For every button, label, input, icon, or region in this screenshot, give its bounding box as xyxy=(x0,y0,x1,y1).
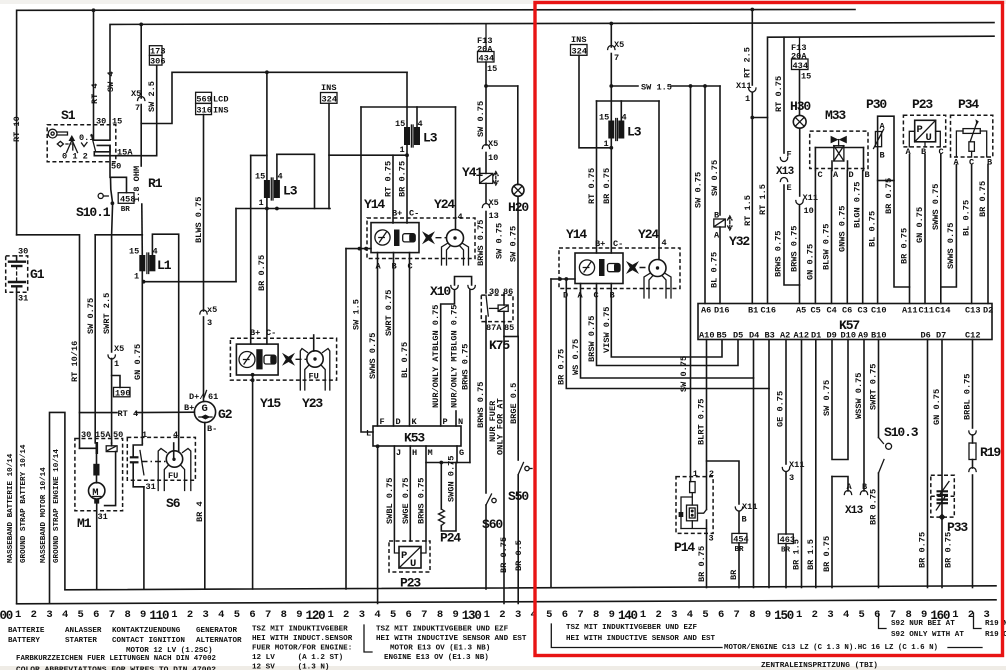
wire RT4 bus to G2 xyxy=(80,412,118,414)
svg-text:Y15: Y15 xyxy=(260,396,281,411)
starter M1 xyxy=(75,430,123,589)
svg-text:S1: S1 xyxy=(61,108,76,123)
wire P23 A to K57 A11 xyxy=(909,155,911,304)
wire K57 D6 to bus (BR 0.75) xyxy=(927,340,929,588)
svg-text:7: 7 xyxy=(135,103,140,113)
svg-text:C6: C6 xyxy=(842,306,852,316)
svg-text:8: 8 xyxy=(124,609,130,621)
svg-text:9: 9 xyxy=(609,609,615,621)
svg-text:M: M xyxy=(428,448,433,458)
connector X10 jumper xyxy=(430,277,475,300)
resistor P24 with loop xyxy=(439,456,462,546)
svg-text:7: 7 xyxy=(421,609,427,621)
svg-text:SW 0.75: SW 0.75 xyxy=(679,356,689,392)
svg-text:BR 0.5: BR 0.5 xyxy=(514,540,524,571)
svg-text:MASSEBAND BATTERIE 10/14: MASSEBAND BATTERIE 10/14 xyxy=(7,453,15,563)
wire SW 1.5 bus xyxy=(611,85,638,87)
svg-text:P23: P23 xyxy=(912,97,933,112)
svg-text:RT 0.75: RT 0.75 xyxy=(587,168,597,204)
svg-text:HEI WITH INDUCT.SENSOR: HEI WITH INDUCT.SENSOR xyxy=(252,635,353,643)
svg-text:K75: K75 xyxy=(489,338,510,353)
svg-text:A5: A5 xyxy=(796,306,806,316)
switch S60 xyxy=(482,494,503,532)
svg-text:X10: X10 xyxy=(430,284,451,299)
switch S10.3 xyxy=(879,425,919,473)
svg-text:BL 0.75: BL 0.75 xyxy=(710,252,720,288)
svg-text:3: 3 xyxy=(671,609,677,621)
wire K75-85 to ground with branch to S50 line xyxy=(503,322,505,604)
svg-text:SWWS 0.75: SWWS 0.75 xyxy=(946,223,956,269)
svg-text:SWRT 2.5: SWRT 2.5 xyxy=(102,293,112,334)
svg-text:A6: A6 xyxy=(701,306,711,316)
wire BR 0.75 to Y14R C- xyxy=(610,148,612,253)
svg-text:C10: C10 xyxy=(871,306,886,316)
wire bus2 top (15 supply) xyxy=(110,23,994,139)
wire K57 A9 to X13-B (WSSW 0.75) xyxy=(863,340,865,492)
wire 15A bar xyxy=(94,155,156,157)
svg-text:2: 2 xyxy=(655,609,661,621)
svg-text:BRWS 0.75: BRWS 0.75 xyxy=(476,220,486,266)
svg-text:87A: 87A xyxy=(486,323,502,333)
generator G2 xyxy=(184,391,233,590)
svg-text:ZENTRALEINSPRITZUNG (TBI): ZENTRALEINSPRITZUNG (TBI) xyxy=(761,662,878,670)
wire Y14R entry bar xyxy=(551,278,575,280)
svg-text:A9: A9 xyxy=(858,331,868,341)
svg-text:1: 1 xyxy=(400,145,405,155)
svg-text:BR 1.5: BR 1.5 xyxy=(806,539,816,570)
svg-text:9: 9 xyxy=(140,609,146,621)
svg-text:WSSW 0.75: WSSW 0.75 xyxy=(854,373,864,419)
svg-text:110: 110 xyxy=(149,609,169,623)
svg-text:TSZ MIT INDUKTIVGEBER: TSZ MIT INDUKTIVGEBER xyxy=(252,626,348,634)
svg-text:SWGE 0.75: SWGE 0.75 xyxy=(401,478,411,524)
svg-text:RT 0.75: RT 0.75 xyxy=(774,76,784,112)
wire K53 M to P23 (BRWS 0.75) + M-G bar xyxy=(425,446,427,541)
svg-text:100: 100 xyxy=(0,609,13,623)
svg-text:120: 120 xyxy=(306,609,326,623)
svg-text:BLRT 0.75: BLRT 0.75 xyxy=(697,399,707,445)
svg-text:NUR/ONLY AT: NUR/ONLY AT xyxy=(431,351,441,408)
wire RT 0.75 to Y14R B+ xyxy=(596,148,598,253)
svg-text:2: 2 xyxy=(709,469,714,479)
wire K57 D4 / B3 ground lines to bus1 xyxy=(753,378,755,588)
svg-text:BR 1.5: BR 1.5 xyxy=(792,539,802,570)
svg-text:KONTAKTZUENDUNG: KONTAKTZUENDUNG xyxy=(112,627,181,635)
svg-text:1: 1 xyxy=(142,430,147,440)
svg-text:B: B xyxy=(865,170,870,180)
wire Y15 ground line down to bus1 xyxy=(252,375,254,589)
wire RT 2.5 from bus1 down xyxy=(750,8,754,12)
svg-text:INS: INS xyxy=(571,35,586,45)
connector X5 pin 7 xyxy=(138,97,145,101)
svg-text:RT 1.5: RT 1.5 xyxy=(758,184,768,215)
svg-text:P: P xyxy=(917,124,923,136)
fuse box 173/306 xyxy=(149,46,165,67)
svg-text:BR 4: BR 4 xyxy=(195,501,205,522)
svg-text:K: K xyxy=(412,417,418,427)
svg-text:D7: D7 xyxy=(936,331,946,341)
svg-text:3: 3 xyxy=(46,609,52,621)
svg-text:190: 190 xyxy=(115,388,130,398)
inductor L3 (instrument, left mid) xyxy=(251,72,315,344)
svg-text:1: 1 xyxy=(327,609,333,621)
svg-text:BR 0.75: BR 0.75 xyxy=(822,536,832,572)
sensor P23 (left) xyxy=(389,541,430,591)
svg-text:D: D xyxy=(396,417,401,427)
svg-text:L: L xyxy=(366,429,371,439)
svg-text:SWBL 0.75: SWBL 0.75 xyxy=(385,478,395,524)
wire X10 left to K53 P (BLGN 0.75) xyxy=(441,290,455,426)
svg-text:15: 15 xyxy=(112,117,122,127)
svg-text:2: 2 xyxy=(187,609,193,621)
svg-text:5: 5 xyxy=(78,609,84,621)
node RT10 label xyxy=(12,116,22,142)
svg-text:A: A xyxy=(906,147,912,157)
svg-text:3: 3 xyxy=(207,318,212,328)
svg-text:U: U xyxy=(410,558,416,570)
wire Y14R C to K57 D5 (BRSW 0.75) xyxy=(597,284,739,366)
svg-text:C13: C13 xyxy=(965,306,980,316)
svg-text:X13: X13 xyxy=(845,505,864,517)
svg-text:RT 4: RT 4 xyxy=(118,409,139,419)
svg-text:G: G xyxy=(202,403,208,415)
svg-text:S10.1: S10.1 xyxy=(76,205,111,220)
wire K57 A12 to bus (BR 1.5) xyxy=(801,340,803,588)
svg-text:4: 4 xyxy=(458,212,463,222)
wire BR 0.75 to Y15 C- xyxy=(266,209,268,345)
svg-text:BR 0.75: BR 0.75 xyxy=(257,255,267,291)
sensor P33 xyxy=(931,475,969,535)
svg-text:GN 0.75: GN 0.75 xyxy=(806,244,816,280)
svg-text:15: 15 xyxy=(599,113,609,123)
wire K57 B10 to S10.3 (SWRT 0.75) xyxy=(878,340,880,438)
inductor L3 (main, left) xyxy=(361,72,456,157)
svg-text:BR 0.75: BR 0.75 xyxy=(918,532,928,568)
svg-text:BLGN 0.75: BLGN 0.75 xyxy=(431,305,441,351)
wire R1 line down to L1 xyxy=(140,124,142,167)
svg-text:9: 9 xyxy=(765,609,771,621)
control unit K57 xyxy=(698,304,993,341)
wire entry ground to bus1 xyxy=(550,279,552,588)
box 454 BR xyxy=(738,512,740,533)
box 569/316 LCD INS xyxy=(196,92,229,115)
svg-text:ONLY FOR AT: ONLY FOR AT xyxy=(496,398,506,455)
svg-text:G: G xyxy=(459,448,464,458)
svg-text:ENGINE E13 OV (E1.3 NB): ENGINE E13 OV (E1.3 NB) xyxy=(384,654,489,662)
svg-text:9: 9 xyxy=(452,609,458,621)
svg-text:3: 3 xyxy=(709,534,714,544)
lamp H30 xyxy=(790,99,811,196)
svg-text:1: 1 xyxy=(640,609,646,621)
svg-text:2: 2 xyxy=(812,609,818,621)
svg-text:5: 5 xyxy=(390,609,396,621)
svg-text:GNWS 0.75: GNWS 0.75 xyxy=(837,206,847,252)
svg-text:SWGN 0.75: SWGN 0.75 xyxy=(447,456,457,502)
svg-text:13: 13 xyxy=(489,211,499,221)
svg-text:RT 1.5: RT 1.5 xyxy=(743,195,753,226)
svg-text:D16: D16 xyxy=(714,306,729,316)
svg-text:X11: X11 xyxy=(742,502,757,512)
svg-text:B+: B+ xyxy=(184,403,194,413)
svg-text:BLSW 0.75: BLSW 0.75 xyxy=(822,224,832,270)
svg-text:D: D xyxy=(849,170,854,180)
wire Y14L entry bar with junctions xyxy=(346,248,371,250)
svg-text:RT 10: RT 10 xyxy=(12,116,22,142)
svg-text:B1: B1 xyxy=(748,306,758,316)
wire footer bracket 2 xyxy=(364,625,372,652)
wire X5-7 right line from bus2 xyxy=(609,22,613,26)
wire M33 D to K57 C6 (GNWS 0.75) xyxy=(846,171,848,304)
svg-text:6: 6 xyxy=(718,609,724,621)
svg-text:MOTOR 12 LV (1.2SC): MOTOR 12 LV (1.2SC) xyxy=(126,647,213,655)
svg-text:X13: X13 xyxy=(776,166,795,178)
svg-text:COLOR ABBREVIATIONS FOR WIRES: COLOR ABBREVIATIONS FOR WIRES TO DIN 470… xyxy=(16,667,216,670)
wire SW1.5 riser from L3L box to Y14 and K53 L xyxy=(361,107,373,432)
svg-text:BATTERIE: BATTERIE xyxy=(8,627,45,635)
switch S10.1 xyxy=(76,193,111,220)
svg-text:4: 4 xyxy=(62,609,68,621)
svg-text:Y23: Y23 xyxy=(302,396,323,411)
svg-text:M1: M1 xyxy=(77,516,92,531)
svg-text:D+/: D+/ xyxy=(189,392,204,402)
svg-text:50: 50 xyxy=(111,162,121,172)
svg-text:J: J xyxy=(396,448,401,458)
svg-text:B+: B+ xyxy=(250,328,260,338)
wire RT 0.75 from bus3 to X13-F xyxy=(783,37,785,153)
fuse F13 (left) xyxy=(477,24,497,86)
wire P34 C to K57 C13 (BL 0.75) xyxy=(971,165,973,304)
svg-text:FU: FU xyxy=(309,372,319,382)
svg-text:BR 0.75: BR 0.75 xyxy=(944,532,954,568)
svg-text:S6: S6 xyxy=(166,496,181,511)
node red highlight frame xyxy=(535,3,1003,656)
capacitor switch S6 xyxy=(127,430,195,589)
wire Y14L C to K53 K (BL 0.75) xyxy=(409,253,411,426)
svg-text:10: 10 xyxy=(804,206,814,216)
wire M33 A to K57 C4 (BLSW 0.75) xyxy=(831,171,833,304)
lamp H20 xyxy=(508,86,529,337)
wire BR 0.75 to Y14L C- xyxy=(406,155,408,223)
svg-text:D2: D2 xyxy=(983,306,993,316)
svg-text:CONTACT IGNITION: CONTACT IGNITION xyxy=(112,637,185,645)
wire RT 0.75 to Y14L B+ xyxy=(392,155,394,223)
svg-text:85: 85 xyxy=(504,323,514,333)
svg-text:x5: x5 xyxy=(207,305,217,315)
svg-text:BRWS 0.75: BRWS 0.75 xyxy=(476,382,486,428)
svg-text:A: A xyxy=(714,231,720,241)
svg-text:61: 61 xyxy=(208,392,218,402)
wire 50 / SWRT 2.5 down from S1 xyxy=(109,145,111,177)
switch S1 ignition xyxy=(47,108,133,172)
wire H20/S50 line down xyxy=(517,337,519,461)
svg-text:S92 ONLY WITH AT: S92 ONLY WITH AT xyxy=(891,631,964,639)
svg-text:D5: D5 xyxy=(733,331,743,341)
svg-text:B: B xyxy=(880,151,885,161)
svg-text:BRWS 0.75: BRWS 0.75 xyxy=(774,231,784,277)
wire Y24L terminal 4 riser xyxy=(455,107,457,230)
svg-text:BLGN 0.75: BLGN 0.75 xyxy=(853,182,863,228)
svg-text:SW 0.75: SW 0.75 xyxy=(710,160,720,196)
relay K75 xyxy=(481,287,514,353)
svg-text:BR 0.75: BR 0.75 xyxy=(398,161,408,197)
wire Y14L A to K53 F (SWWS 0.75) xyxy=(377,253,379,426)
svg-text:LCD: LCD xyxy=(213,95,228,105)
wire SW 2.5 from 173/306 to 15A bar xyxy=(156,65,158,155)
svg-text:C: C xyxy=(818,170,823,180)
svg-text:SW 0.75: SW 0.75 xyxy=(822,380,832,416)
wire X5-7 line from bus2 down xyxy=(139,23,143,27)
wire INS bar y155 xyxy=(329,154,407,156)
wire S92 bracket xyxy=(879,613,887,629)
fuse F13 (right) xyxy=(791,37,811,115)
svg-text:U: U xyxy=(926,132,932,144)
svg-text:INS: INS xyxy=(213,106,228,116)
svg-text:6: 6 xyxy=(874,609,880,621)
svg-text:12 LV (A 1.2 ST): 12 LV (A 1.2 ST) xyxy=(252,654,343,662)
wire RT 1.5 to K57 C16 xyxy=(767,118,769,304)
svg-text:8: 8 xyxy=(749,609,755,621)
svg-text:10: 10 xyxy=(488,153,498,163)
svg-text:3: 3 xyxy=(359,609,365,621)
control unit K53 xyxy=(366,417,464,458)
injection unit P14 xyxy=(674,469,714,588)
injector module Y14 (left) xyxy=(364,197,475,272)
wire SW 0.75 from SW1.5 to P14 pin1 xyxy=(690,86,692,482)
svg-text:G1: G1 xyxy=(30,267,45,282)
relay coil Y41 xyxy=(462,165,498,203)
svg-text:BRWS 0.75: BRWS 0.75 xyxy=(417,478,427,524)
wire Y14R B to K57 B5 (VISW 0.75) xyxy=(611,284,722,358)
svg-text:A: A xyxy=(833,170,839,180)
svg-text:M33: M33 xyxy=(825,108,846,123)
svg-text:E: E xyxy=(787,183,792,193)
node grid scale numbers xyxy=(0,609,990,623)
svg-text:3: 3 xyxy=(827,609,833,621)
svg-text:B+: B+ xyxy=(392,209,402,219)
svg-text:VISW 0.75: VISW 0.75 xyxy=(602,307,612,353)
svg-text:BR 0.75: BR 0.75 xyxy=(978,181,988,217)
switch S50 xyxy=(508,463,532,505)
svg-text:RT 0.75: RT 0.75 xyxy=(384,161,394,197)
svg-text:WS 0.75: WS 0.75 xyxy=(571,339,581,375)
svg-text:1: 1 xyxy=(745,94,750,104)
svg-text:C16: C16 xyxy=(761,306,776,316)
svg-text:1: 1 xyxy=(114,359,119,369)
wire P23 B to K57 C11 (GN 0.75) xyxy=(924,155,926,304)
svg-text:BR 0.75: BR 0.75 xyxy=(869,489,879,525)
svg-text:306: 306 xyxy=(150,56,165,66)
svg-text:Y24: Y24 xyxy=(434,197,455,212)
svg-text:6: 6 xyxy=(249,609,255,621)
svg-text:1: 1 xyxy=(693,469,698,479)
svg-text:C5: C5 xyxy=(811,306,821,316)
box 463 BR xyxy=(778,534,793,544)
svg-text:FU: FU xyxy=(168,471,178,481)
svg-text:STARTER: STARTER xyxy=(65,637,97,645)
wire fuse line down through Y41 xyxy=(485,86,487,145)
svg-text:31: 31 xyxy=(146,482,156,492)
svg-text:Y32: Y32 xyxy=(729,234,750,249)
svg-text:4: 4 xyxy=(843,609,849,621)
svg-text:5: 5 xyxy=(859,609,865,621)
svg-text:SW 1.5: SW 1.5 xyxy=(641,83,672,93)
svg-text:1: 1 xyxy=(171,609,177,621)
svg-text:3: 3 xyxy=(515,609,521,621)
svg-text:SW 0.75: SW 0.75 xyxy=(509,226,519,262)
svg-text:MOTOR/ENGINE C13 LZ (C 1.3 N).: MOTOR/ENGINE C13 LZ (C 1.3 N).HC 16 LZ (… xyxy=(724,644,938,652)
sensor P23 (right) xyxy=(903,97,945,157)
wire P34 B to K57 D2 (BR 0.75) xyxy=(987,165,989,304)
svg-text:HEI WITH INDUCTIVE SENSOR AND: HEI WITH INDUCTIVE SENSOR AND EST xyxy=(566,635,715,643)
connector X5 pin3 on G2 line xyxy=(203,282,205,311)
relay valve Y32 xyxy=(714,211,751,304)
svg-text:0 1 2: 0 1 2 xyxy=(62,152,88,162)
svg-text:B3: B3 xyxy=(765,331,775,341)
svg-text:8: 8 xyxy=(281,609,287,621)
wire X13-A feed bar and ground branch (BR 0.75) xyxy=(832,477,848,492)
svg-text:BR: BR xyxy=(729,569,739,580)
wire P30 right to K57 A11 (BR 0.75) xyxy=(894,181,910,288)
svg-text:SW 0.75: SW 0.75 xyxy=(495,223,505,259)
potentiometer P34 xyxy=(951,97,993,168)
wire K53 ground line to bus2 xyxy=(377,446,379,603)
wire L1 bottom bar xyxy=(142,281,236,283)
svg-text:2: 2 xyxy=(31,609,37,621)
wire M33 C to K57 C5 (GN 0.75) xyxy=(814,171,816,304)
svg-text:NUR/ONLY MT: NUR/ONLY MT xyxy=(450,351,460,408)
svg-text:C-: C- xyxy=(266,328,276,338)
wire G1-31 down to bus2 xyxy=(16,292,18,603)
svg-text:SW 4: SW 4 xyxy=(106,71,116,92)
svg-text:A: A xyxy=(880,122,886,132)
wire Y24R terminal 4 riser xyxy=(658,101,660,260)
svg-text:6: 6 xyxy=(406,609,412,621)
wire K57 D7 to P33 (GN 0.75) xyxy=(941,340,943,588)
svg-text:SWRT 0.75: SWRT 0.75 xyxy=(869,364,879,410)
svg-text:HEI WITH INDUCTIVE SENSOR AND: HEI WITH INDUCTIVE SENSOR AND EST xyxy=(376,635,527,643)
wire K53 J to P23 (SWBL 0.75) xyxy=(393,446,395,541)
box 458 BR xyxy=(111,177,136,214)
injector Y15 xyxy=(230,328,336,411)
svg-text:2: 2 xyxy=(499,609,505,621)
svg-text:FUER MOTOR/FOR ENGINE:: FUER MOTOR/FOR ENGINE: xyxy=(252,645,352,653)
svg-text:SWRT 0.75: SWRT 0.75 xyxy=(384,290,394,336)
svg-text:SWWS 0.75: SWWS 0.75 xyxy=(368,333,378,379)
svg-text:569: 569 xyxy=(196,94,211,104)
svg-text:L3: L3 xyxy=(627,125,642,140)
svg-text:G2: G2 xyxy=(218,407,233,422)
svg-text:GE 0.75: GE 0.75 xyxy=(776,391,786,427)
wire K53 N stub xyxy=(455,411,457,426)
wire P34 A to C14 line (SWWS 0.75) xyxy=(941,165,957,288)
svg-text:4: 4 xyxy=(173,430,178,440)
box 190 xyxy=(112,376,131,399)
svg-text:X5: X5 xyxy=(114,344,124,354)
svg-text:A2: A2 xyxy=(780,331,790,341)
wire M33 B to K57 C3 (BLGN 0.75) xyxy=(862,171,864,304)
wire S6-1 line down xyxy=(141,282,143,444)
svg-text:BR 0.75: BR 0.75 xyxy=(884,178,894,214)
ground strap motor (bar + legs) xyxy=(50,412,65,603)
svg-text:BRGE 0.5: BRGE 0.5 xyxy=(509,383,519,424)
svg-text:P: P xyxy=(401,550,407,562)
svg-text:RT 4: RT 4 xyxy=(90,83,100,104)
wire ground line from Y14L entry to bus1 xyxy=(345,249,347,589)
svg-text:L1: L1 xyxy=(157,258,172,273)
wire H20/K75 feed bar y86 xyxy=(486,85,518,87)
svg-text:30: 30 xyxy=(18,247,28,257)
svg-text:L3: L3 xyxy=(423,131,438,146)
